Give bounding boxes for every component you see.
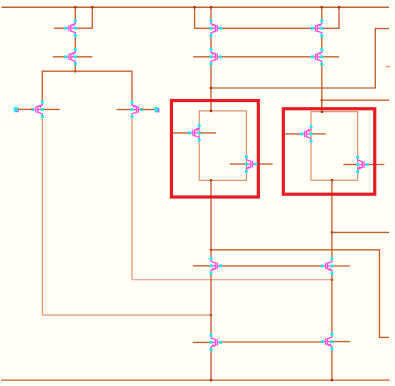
wire W1 right loop xyxy=(211,250,389,338)
node R1 drain rail junction xyxy=(320,6,323,9)
transistor M1 pmos xyxy=(210,20,222,37)
transistor R2 pmos xyxy=(311,48,323,65)
wire box2 loop xyxy=(311,112,358,181)
node input port IN- xyxy=(155,108,159,112)
node M1 bulk rail junction xyxy=(193,6,196,9)
wire DR to MB2 column xyxy=(132,279,332,281)
wire R1 drain to VDD xyxy=(321,7,323,21)
wire B1R gate xyxy=(256,163,273,165)
node MB4 ground junction xyxy=(331,379,334,382)
wire box1 exit down xyxy=(210,180,212,258)
transistor B1R nmos xyxy=(245,155,257,172)
transistor MB3 nmos xyxy=(210,334,222,351)
wire DR bulk stub xyxy=(117,109,132,111)
wire W2 right xyxy=(332,231,389,233)
transistor B2R nmos xyxy=(356,156,368,173)
wire ground bottom rail xyxy=(1,379,390,381)
node T1 bulk rail junction xyxy=(91,6,94,9)
node box1 bottom junction xyxy=(210,179,213,182)
wire M1 source to M2 drain xyxy=(210,35,212,49)
wire R1 bulk loop to VDD xyxy=(322,7,339,28)
wire B2R bulk stub xyxy=(343,164,357,166)
wire box2 exit down xyxy=(331,180,333,259)
node MB3 ground junction xyxy=(210,379,213,382)
wire MB3 bulk stub xyxy=(193,341,211,343)
wire MB4 source to ground xyxy=(331,349,333,380)
transistor T1 pmos xyxy=(64,20,76,37)
transistor MB2 nmos xyxy=(321,257,333,274)
wire IN+ to DL gate xyxy=(18,108,33,110)
wire DL drain down xyxy=(41,117,43,316)
wire DL to MB column xyxy=(42,314,211,316)
wire MB2 source to MB4 drain xyxy=(331,273,333,334)
node R1 bulk rail junction xyxy=(338,6,341,9)
wire B1R bulk stub xyxy=(230,163,247,165)
wire salmon stub right edge xyxy=(386,66,391,68)
wire MB4 bulk stub xyxy=(332,341,350,343)
transistor R1 pmos xyxy=(311,20,323,37)
transistor MB4 nmos xyxy=(321,333,333,350)
wire out1 to top right xyxy=(211,29,389,88)
wire DR drain down xyxy=(131,117,133,280)
node input port IN+ xyxy=(15,108,19,112)
node W2 junction xyxy=(331,231,334,234)
highlight box 2 xyxy=(283,109,374,194)
node T1 drain rail junction xyxy=(74,6,77,9)
wire T2 source down xyxy=(74,64,76,71)
transistor DR pmos diff-right xyxy=(131,101,143,118)
node box2 bottom junction xyxy=(331,179,334,182)
wire M1 bulk loop to VDD xyxy=(195,7,211,28)
wire B1L gate xyxy=(173,132,190,134)
wire M2 gate to R2 gate xyxy=(221,56,313,58)
node M1 drain rail junction xyxy=(210,6,213,9)
wire MB3 source to ground xyxy=(210,350,212,381)
transistor T2 pmos xyxy=(64,48,76,65)
wire VDD top rail xyxy=(2,6,390,8)
node box2 top junction xyxy=(321,110,324,113)
node out1 junction xyxy=(210,87,213,90)
wire T1 gate stub xyxy=(54,27,66,29)
wire T1 source to T2 drain xyxy=(74,35,76,49)
wire B2L bulk stub xyxy=(311,133,326,135)
node box1 top junction xyxy=(210,110,213,113)
wire T2 gate stub xyxy=(53,56,66,58)
wire MB2 bulk stub xyxy=(332,265,350,267)
wire DL bulk stub xyxy=(42,108,59,110)
wire M1 gate to R1 gate xyxy=(221,27,313,29)
highlight box 1 xyxy=(171,101,258,197)
node tail junction xyxy=(74,70,77,73)
wire R2 source down to box2 xyxy=(321,64,323,112)
node W4 junction xyxy=(320,99,323,102)
wire box1 loop xyxy=(199,111,246,180)
wire R2 bulk stub xyxy=(322,56,339,58)
transistor MB1 nmos xyxy=(210,257,222,274)
wire MB1 source to MB3 drain xyxy=(210,273,212,335)
wire MB1 gate to MB2 gate xyxy=(221,265,323,267)
wire B2L gate xyxy=(285,133,302,135)
wire R1 source to R2 drain xyxy=(321,35,323,49)
wire B2R gate xyxy=(367,164,384,166)
transistor B1L pmos xyxy=(188,124,200,141)
node y280 junction xyxy=(331,278,334,281)
wire T2 bulk stub xyxy=(75,56,92,58)
wire T1 bulk loop to VDD xyxy=(75,7,92,28)
wire diff pair tail xyxy=(42,71,132,102)
wire B1L bulk stub xyxy=(199,132,216,134)
wire W4 right xyxy=(322,99,389,101)
wire box2 entry xyxy=(321,100,323,112)
transistor B2L pmos xyxy=(300,125,312,142)
wire M2 source down to box1 xyxy=(210,64,212,111)
wire DR gate to IN- xyxy=(142,109,155,111)
node W1 junction xyxy=(210,248,213,251)
transistor M2 pmos xyxy=(210,48,222,65)
wire T1 drain to VDD xyxy=(74,7,76,21)
wire MB3 gate to MB4 gate xyxy=(221,341,323,343)
wire M1 drain to VDD xyxy=(210,7,212,21)
node y315 junction xyxy=(210,314,213,317)
wire M2 bulk stub xyxy=(193,56,211,58)
transistor DL pmos diff-left xyxy=(31,101,43,118)
wire MB1 bulk stub xyxy=(193,265,211,267)
